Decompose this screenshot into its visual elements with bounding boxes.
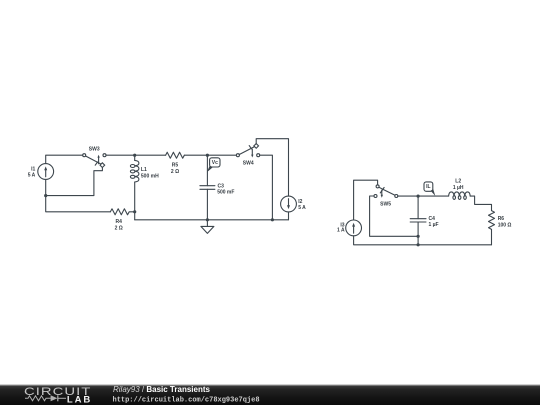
svg-text:Rilay93 / Basic Transients: Rilay93 / Basic Transients: [113, 385, 210, 394]
svg-text:SW3: SW3: [89, 147, 100, 153]
svg-text:5 A: 5 A: [298, 205, 306, 211]
wire C3 node to SW4: [207, 154, 236, 156]
node C3 top junction: [206, 154, 209, 157]
svg-text:L2: L2: [455, 178, 461, 184]
node SW5 return junction: [417, 235, 420, 238]
svg-text:LAB: LAB: [67, 394, 91, 405]
capacitor C4: [410, 216, 438, 228]
wire bottom rail: [135, 219, 289, 221]
switch SW3: [83, 147, 106, 168]
svg-text:2 Ω: 2 Ω: [115, 226, 123, 232]
wire SW4 right terminal to bottom rail: [260, 155, 273, 220]
svg-text:Vc: Vc: [212, 160, 218, 166]
svg-text:R5: R5: [172, 162, 179, 168]
svg-text:100 Ω: 100 Ω: [498, 222, 512, 228]
resistor R4: [110, 209, 134, 232]
svg-text:1 µH: 1 µH: [453, 185, 464, 191]
wire SW4 top throw to I2 top: [256, 139, 288, 196]
wire C3 branch upper: [206, 155, 208, 186]
node L1 top junction: [133, 154, 136, 157]
node SW4 return junction: [271, 218, 274, 221]
wire C4 branch upper: [417, 196, 419, 219]
voltmeter probe Vc: [207, 158, 220, 173]
wire SW5 common to L2: [398, 195, 449, 197]
logo resistor squiggle: [25, 396, 51, 401]
current source I3: [337, 220, 362, 236]
wire R5 to C3 node: [184, 154, 207, 156]
wire I3 bottom rail: [354, 236, 492, 245]
current source I2: [281, 196, 307, 212]
wire R6 to bottom rail: [491, 229, 493, 244]
wire I1 bottom to R4: [46, 179, 111, 211]
svg-text:C4: C4: [429, 216, 436, 222]
node C4 bottom rail junction: [417, 243, 420, 246]
logo diode: [51, 395, 66, 401]
capacitor C3: [200, 183, 235, 195]
wire I1 top to SW3: [46, 155, 83, 163]
svg-text:1 µF: 1 µF: [429, 222, 439, 228]
svg-text:SW4: SW4: [243, 161, 254, 167]
svg-text:500 mH: 500 mH: [141, 173, 159, 179]
wire L2 to R6: [470, 196, 491, 211]
resistor R5: [166, 152, 185, 175]
svg-text:5 A: 5 A: [28, 173, 36, 179]
footer bar: [0, 384, 540, 405]
svg-text:R4: R4: [115, 219, 122, 225]
svg-text:1 A: 1 A: [337, 227, 345, 233]
svg-text:I1: I1: [31, 166, 35, 172]
inductor L1: [130, 155, 159, 220]
wire I2 bottom: [288, 212, 290, 220]
svg-text:IL: IL: [426, 184, 430, 190]
wire L1 to R5: [135, 154, 166, 156]
svg-text:SW5: SW5: [380, 202, 391, 208]
current source I1: [28, 164, 54, 180]
node C4 top junction: [417, 195, 420, 198]
ground: [201, 220, 214, 234]
switch SW4: [236, 144, 259, 167]
svg-text:R6: R6: [498, 216, 505, 222]
resistor R6: [489, 211, 512, 230]
switch SW5: [374, 185, 398, 208]
node ground junction: [206, 218, 209, 221]
wire SW3 to L1 top: [106, 154, 135, 156]
wire SW3 throw return to I1 bottom node: [46, 168, 103, 196]
wire C4 to bottom rail: [417, 222, 419, 245]
node I1 bottom junction: [44, 194, 47, 197]
inductor L2: [449, 178, 471, 199]
svg-text:2 Ω: 2 Ω: [171, 169, 179, 175]
wire SW5 lower throw to C4 bottom: [370, 196, 419, 236]
svg-text:500 mF: 500 mF: [217, 189, 234, 195]
wire C3 to bottom rail: [206, 189, 208, 220]
svg-text:http://circuitlab.com/c78xg93e: http://circuitlab.com/c78xg93e7qje8: [113, 397, 260, 405]
ammeter probe IL: [424, 182, 435, 196]
wire I3 top to SW5: [354, 180, 378, 220]
svg-text:L1: L1: [141, 167, 147, 173]
node R4 / L1 junction: [133, 210, 136, 213]
